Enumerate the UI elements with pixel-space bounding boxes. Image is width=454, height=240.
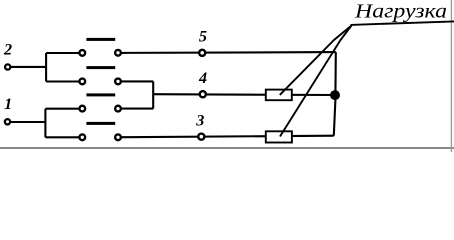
- wire row 4: [153, 93, 335, 96]
- resistor R2: [266, 131, 292, 142]
- terminal 1: [5, 119, 10, 124]
- contact K3 left pin: [79, 106, 85, 112]
- contact K4 right pin: [115, 134, 121, 140]
- wire terminal 2 lead: [11, 66, 47, 68]
- contact bar K2: [86, 66, 115, 69]
- wire row 3: [121, 136, 333, 138]
- contact bar K3: [86, 93, 115, 96]
- contact K1 left pin: [79, 50, 85, 56]
- terminal 3: [198, 134, 204, 140]
- contact K3 right pin: [115, 106, 121, 112]
- wire branch from terminal 2: [46, 53, 79, 82]
- terminal 5: [199, 50, 205, 56]
- contact K1 right pin: [115, 50, 121, 56]
- svg-text:Нагрузка: Нагрузка: [354, 1, 447, 23]
- svg-text:4: 4: [198, 69, 207, 87]
- terminal 4: [200, 91, 206, 97]
- wire contact K2 right lead: [121, 80, 153, 82]
- wire row 5: [121, 51, 335, 54]
- svg-text:2: 2: [3, 41, 12, 59]
- wire branch from terminal 1: [45, 109, 79, 138]
- wire link K2-K3: [152, 81, 154, 108]
- leader line to R2: [280, 26, 352, 137]
- contact K2 left pin: [79, 79, 85, 85]
- contact bar K4: [86, 122, 115, 125]
- resistor R1: [266, 90, 292, 101]
- wire right bus vertical: [334, 52, 336, 136]
- leader line to R1: [280, 26, 352, 95]
- scan edge bottom: [0, 147, 454, 149]
- contact K2 right pin: [115, 79, 121, 85]
- scan edge right: [450, 0, 452, 152]
- contact K4 left pin: [79, 134, 85, 140]
- node: load bus junction: [330, 90, 340, 100]
- terminal 2: [5, 64, 10, 69]
- svg-text:3: 3: [195, 111, 204, 129]
- wire terminal 1 lead: [10, 121, 45, 123]
- svg-text:5: 5: [199, 28, 207, 46]
- contact bar K1: [86, 38, 115, 41]
- svg-text:1: 1: [4, 95, 12, 113]
- wire contact K3 right lead: [121, 108, 153, 110]
- leader underline: [351, 21, 454, 25]
